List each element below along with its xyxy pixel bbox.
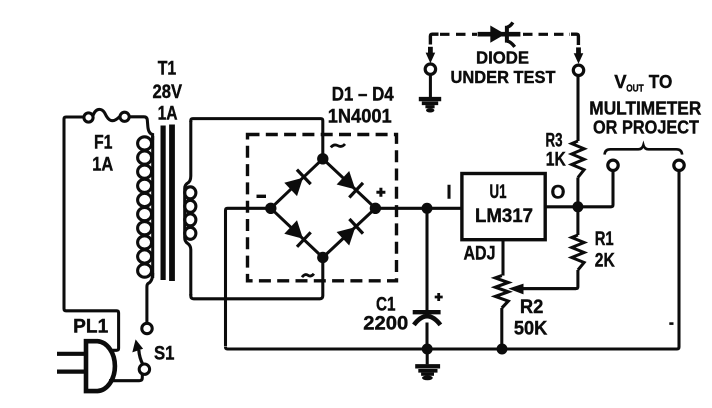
diode under test symbol bbox=[478, 22, 521, 47]
bridge diamond arms bbox=[271, 159, 376, 258]
potentiometer R2 bbox=[495, 276, 576, 349]
test terminal right arrow bbox=[574, 47, 584, 63]
svg-text:ADJ: ADJ bbox=[464, 244, 496, 265]
label T1 28V 1A bbox=[153, 59, 183, 125]
svg-text:OUT: OUT bbox=[626, 82, 644, 94]
ground under left terminal bbox=[419, 75, 441, 113]
svg-text:PL1: PL1 bbox=[73, 317, 108, 338]
svg-text:1K: 1K bbox=[546, 150, 566, 171]
svg-text:R3: R3 bbox=[546, 131, 563, 152]
transformer T1 core bbox=[161, 125, 175, 282]
diode D3 bottom-left bbox=[284, 220, 310, 247]
fuse F1 bbox=[84, 109, 129, 122]
label 1N4001 bbox=[328, 106, 392, 128]
label R2 50K bbox=[514, 297, 548, 340]
junction node at C1 tap bbox=[422, 203, 433, 214]
svg-text:DIODE: DIODE bbox=[476, 48, 529, 68]
svg-text:28V: 28V bbox=[153, 82, 183, 103]
transformer T1 secondary winding bbox=[185, 121, 196, 296]
svg-text:I: I bbox=[446, 183, 451, 204]
plug PL1 bbox=[57, 341, 142, 391]
svg-text:2K: 2K bbox=[595, 251, 615, 272]
wire U1 output to left terminal bbox=[545, 171, 613, 207]
bridge rectifier dashed box bbox=[248, 135, 397, 281]
wire bridge right node to U1 input bbox=[380, 207, 462, 210]
label Vout TO MULTIMETER OR PROJECT bbox=[589, 71, 701, 138]
diode D2 top-right bbox=[337, 171, 363, 198]
regulator U1 LM317 bbox=[462, 174, 545, 240]
brace under output labels bbox=[605, 145, 683, 155]
node C1 to rail bbox=[422, 344, 433, 355]
resistor R1 bbox=[523, 207, 584, 289]
svg-text:2200: 2200 bbox=[363, 314, 408, 335]
pin label I bbox=[446, 183, 451, 204]
wire secondary bottom to bridge bottom node bbox=[191, 262, 323, 299]
diode D4 bottom-right bbox=[337, 219, 363, 246]
transformer T1 primary winding bbox=[138, 136, 153, 278]
svg-text:O: O bbox=[551, 183, 566, 204]
dashed wire right of diode bbox=[523, 33, 570, 36]
wire left loop from fuse down to plug bbox=[64, 117, 119, 350]
svg-text:50K: 50K bbox=[514, 318, 548, 339]
svg-text:R2: R2 bbox=[520, 297, 544, 318]
ground below C1 bbox=[415, 349, 440, 380]
svg-text:MULTIMETER: MULTIMETER bbox=[589, 97, 701, 118]
label F1 1A bbox=[92, 133, 113, 176]
wire fuse to transformer primary bbox=[129, 117, 152, 140]
svg-text:T1: T1 bbox=[158, 59, 177, 80]
label U1 LM317 bbox=[475, 182, 533, 227]
wire U1 ADJ pin down bbox=[501, 240, 504, 276]
wire bridge left node to bottom rail bbox=[226, 208, 267, 346]
resistor R3 bbox=[572, 76, 584, 207]
node output junction bbox=[572, 201, 583, 212]
pin label O bbox=[551, 183, 566, 204]
wire primary bottom to switch bbox=[147, 273, 153, 323]
wire secondary top rail to bridge top bbox=[191, 119, 323, 154]
test terminal left bbox=[425, 64, 435, 74]
svg-text:1A: 1A bbox=[92, 155, 113, 176]
tilde AC mark bottom bbox=[302, 274, 314, 277]
svg-text:F1: F1 bbox=[94, 133, 113, 154]
dashed wire left to diode bbox=[440, 33, 477, 36]
capacitor C1 bbox=[413, 208, 441, 349]
svg-text:TO: TO bbox=[649, 71, 673, 92]
svg-text:C1: C1 bbox=[376, 294, 396, 315]
svg-text:S1: S1 bbox=[154, 343, 175, 364]
label S1 bbox=[154, 343, 175, 364]
node bottom AC bbox=[317, 252, 328, 263]
svg-text:R1: R1 bbox=[595, 229, 614, 250]
dashed link right corner bbox=[571, 34, 578, 45]
svg-text:1A: 1A bbox=[158, 104, 178, 125]
label C1 2200 bbox=[363, 294, 408, 334]
svg-text:LM317: LM317 bbox=[475, 205, 533, 227]
svg-text:U1: U1 bbox=[490, 182, 507, 203]
test terminal right bbox=[573, 65, 583, 75]
node R2 to rail bbox=[497, 344, 508, 355]
switch S1 bbox=[132, 323, 152, 374]
label R1 2K bbox=[595, 229, 615, 271]
label DIODE UNDER TEST bbox=[451, 48, 556, 88]
tilde AC mark top bbox=[331, 144, 345, 147]
test terminal left arrow bbox=[426, 47, 436, 63]
diode D1 top-left bbox=[284, 170, 310, 197]
node left minus bbox=[265, 203, 276, 214]
label D1 - D4 bbox=[332, 85, 394, 106]
bottom ground rail bbox=[226, 171, 680, 349]
node right plus bbox=[370, 203, 381, 214]
plus polarity mark bbox=[376, 188, 385, 197]
svg-text:UNDER TEST: UNDER TEST bbox=[451, 67, 556, 87]
minus polarity mark bbox=[257, 195, 267, 198]
stray ink dot bbox=[669, 322, 673, 325]
diode under test dashed link left corner bbox=[430, 34, 438, 44]
output terminal right bbox=[674, 160, 684, 170]
svg-text:D1 – D4: D1 – D4 bbox=[332, 85, 394, 106]
svg-text:OR PROJECT: OR PROJECT bbox=[593, 117, 700, 138]
svg-text:1N4001: 1N4001 bbox=[328, 106, 392, 128]
C1 plus mark bbox=[435, 293, 443, 301]
output terminal left bbox=[608, 160, 618, 170]
pin label ADJ bbox=[464, 244, 496, 265]
label PL1 bbox=[73, 317, 108, 338]
label R3 1K bbox=[546, 131, 567, 171]
node top AC bbox=[317, 153, 328, 164]
